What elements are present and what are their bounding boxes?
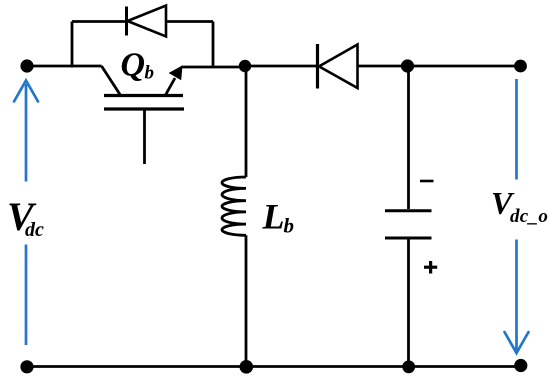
svg-text:Q: Q xyxy=(121,47,146,84)
svg-text:b: b xyxy=(284,214,295,238)
svg-text:L: L xyxy=(262,197,285,237)
svg-text:dc_o: dc_o xyxy=(510,206,548,227)
svg-text:b: b xyxy=(145,63,155,84)
svg-text:dc: dc xyxy=(25,219,44,241)
